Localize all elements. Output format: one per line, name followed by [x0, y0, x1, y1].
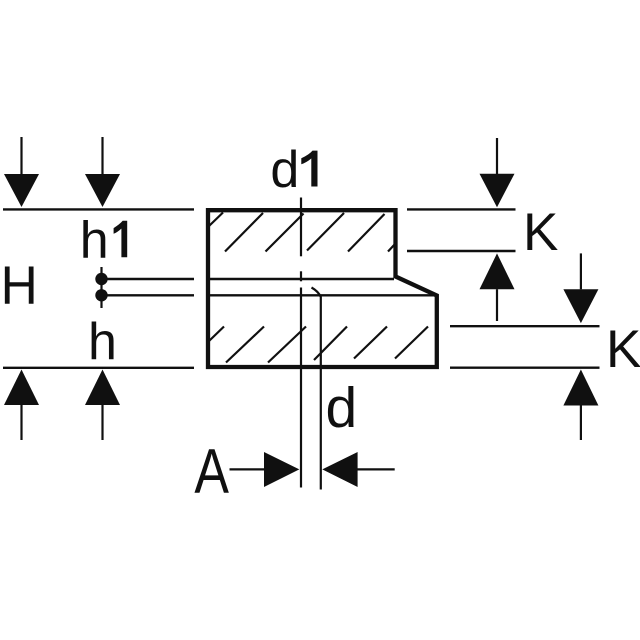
svg-text:K: K — [523, 203, 558, 262]
svg-text:h: h — [88, 313, 117, 371]
svg-text:h: h — [80, 212, 109, 270]
svg-text:d: d — [326, 376, 358, 440]
svg-text:K: K — [606, 320, 640, 379]
svg-text:d: d — [270, 141, 299, 199]
svg-text:A: A — [194, 437, 229, 507]
svg-text:H: H — [1, 255, 38, 315]
